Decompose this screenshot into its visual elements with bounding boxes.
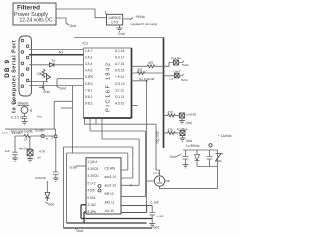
svg-text:470: 470	[168, 111, 174, 115]
svg-text:4 m: 4 m	[37, 115, 43, 119]
bottom right protection cluster	[170, 134, 232, 189]
svg-text:2 A.3: 2 A.3	[85, 55, 92, 59]
svg-text:1N4148: 1N4148	[35, 176, 46, 180]
svg-text:4 3VO3: 4 3VO3	[88, 167, 99, 171]
wire osc left branch	[147, 180, 155, 182]
svg-text:Lt.n: Lt.n	[3, 131, 8, 135]
wire PIC pin9 stub	[132, 105, 138, 107]
svg-text:1 QA #: 1 QA #	[88, 160, 98, 164]
wire bottom bold 2	[64, 227, 153, 229]
svg-text:CT-5: CT-5	[111, 21, 118, 25]
wire +5V rail	[74, 37, 164, 39]
wire arrow mark	[39, 86, 44, 88]
junction dot	[130, 185, 132, 187]
wire stub	[61, 107, 73, 109]
wire aux stub 2	[121, 205, 152, 207]
wire osc bottom to right rail	[160, 186, 218, 188]
svg-text:Rx: Rx	[59, 50, 64, 54]
LED DS2	[164, 70, 189, 83]
svg-text:regulated 5 volt supply: regulated 5 volt supply	[131, 22, 159, 26]
svg-text:A.0 17: A.0 17	[115, 55, 124, 59]
IC1 right pin labels	[115, 49, 125, 106]
ground DS5	[27, 156, 33, 162]
svg-text:8 3Pb: 8 3Pb	[88, 210, 97, 214]
LED DS5	[29, 136, 31, 150]
wire +5V bus vertical	[163, 38, 165, 149]
svg-text:Gnd: Gnd	[118, 32, 125, 36]
ground D5	[46, 202, 48, 204]
svg-text:5 1+2: 5 1+2	[88, 181, 96, 185]
ground regulator	[117, 25, 125, 36]
ground below C4	[22, 122, 28, 125]
wire osc right stub	[165, 180, 169, 182]
svg-text:Gnd: Gnd	[48, 203, 54, 207]
svg-text:Gnd: Gnd	[43, 90, 50, 94]
svg-text:1 A.7: 1 A.7	[85, 49, 92, 53]
wire aux stub	[121, 205, 147, 213]
svg-text:DB 9: DB 9	[4, 59, 11, 78]
wire Q1 to PIC	[57, 78, 84, 80]
label Shield	[13, 101, 29, 106]
IC2 right pin labels	[105, 167, 117, 214]
svg-text:3 3VOC: 3 3VOC	[88, 174, 100, 178]
svg-text:Gnd: Gnd	[186, 121, 192, 125]
svg-text:3.2 12: 3.2 12	[115, 88, 124, 92]
svg-text:L: L	[105, 10, 107, 14]
svg-text:Gnd: Gnd	[170, 155, 176, 159]
svg-text:Gnd: Gnd	[77, 229, 84, 233]
svg-text:Tx: Tx	[51, 59, 55, 63]
wire regulator output	[123, 18, 133, 20]
wire PIC B3 row loop	[90, 118, 146, 197]
svg-text:IC1: IC1	[83, 42, 89, 46]
ground C8	[53, 178, 59, 181]
wire PIC RA7 to LED1	[132, 65, 164, 67]
svg-text:470: 470	[148, 61, 154, 65]
resistor R5	[24, 135, 31, 138]
wire PIC Vdd stub down right	[132, 81, 147, 205]
svg-text:1u 35Vdc: 1u 35Vdc	[186, 144, 200, 148]
svg-text:12-24v: 12-24v	[12, 131, 22, 135]
capacitor C6	[183, 150, 189, 165]
svg-text:3A3 11: 3A3 11	[105, 201, 115, 205]
svg-text:1uF: 1uF	[5, 149, 10, 153]
svg-text:5 3P0: 5 3P0	[85, 75, 94, 79]
IC2 driver box	[70, 158, 122, 214]
wire pin3 with diode D2	[29, 64, 84, 66]
svg-text:Dm/BK: Dm/BK	[35, 129, 45, 133]
wire filter row	[15, 135, 56, 137]
svg-text:LM2940: LM2940	[108, 16, 120, 20]
connector J1 DB9 body	[19, 36, 32, 96]
wire rail	[183, 149, 218, 151]
wire outer loop	[64, 147, 133, 228]
capacitor C2 bottom	[149, 201, 164, 230]
zener D3	[195, 150, 200, 167]
svg-text:A.5 15: A.5 15	[115, 69, 124, 73]
svg-text:Filtered: Filtered	[17, 5, 40, 12]
svg-text:5Vdc: 5Vdc	[181, 78, 188, 82]
IC1 left pin labels	[85, 49, 94, 106]
wire vertical feed	[72, 86, 74, 154]
LED DS3 circuit	[164, 111, 197, 126]
svg-text:4 5/5: 4 5/5	[88, 189, 95, 193]
svg-text:+ um: + um	[157, 214, 164, 218]
connector J1 pins right column	[26, 45, 29, 82]
wire corner to power row	[54, 101, 72, 129]
svg-text:CD ATa: CD ATa	[105, 167, 116, 171]
svg-text:NR 12: NR 12	[105, 192, 114, 196]
LED DS4 circuit	[164, 127, 193, 143]
capacitor C4	[22, 113, 27, 121]
diode D2	[50, 63, 55, 67]
svg-text:A.7 16: A.7 16	[115, 62, 124, 66]
svg-text:470: 470	[168, 128, 174, 132]
diode D5	[46, 181, 48, 193]
svg-text:3 1A2: 3 1A2	[88, 203, 97, 207]
svg-text:12-24 volts DC: 12-24 volts DC	[19, 17, 52, 23]
svg-text:+ 12aVdc: + 12aVdc	[218, 134, 232, 138]
junction circle	[209, 144, 212, 147]
wire supply to regulator	[56, 9, 107, 18]
svg-text:4 A.5: 4 A.5	[85, 69, 92, 73]
wire U loop pin8	[84, 212, 86, 223]
svg-text:8 B.2: 8 B.2	[85, 95, 93, 99]
svg-text:aV: aV	[38, 156, 42, 160]
varistor Z1	[216, 154, 222, 162]
svg-text:1n4148: 1n4148	[186, 113, 196, 117]
wire power in	[5, 129, 56, 135]
IC1 PIC16F box	[83, 42, 132, 119]
svg-text:6 5Ta: 6 5Ta	[88, 196, 96, 200]
svg-text:6 B.0: 6 B.0	[85, 82, 93, 86]
svg-text:470: 470	[137, 68, 143, 72]
svg-text:+5Vdc: +5Vdc	[136, 15, 146, 19]
svg-text:9 B.3: 9 B.3	[85, 102, 93, 106]
svg-text:A.1 18: A.1 18	[115, 49, 124, 53]
left power input cluster	[3, 129, 58, 162]
svg-text:Shield: Shield	[18, 102, 29, 106]
svg-text:3 A.4: 3 A.4	[85, 62, 92, 66]
wire bottom bold	[67, 222, 147, 224]
resistor R3	[147, 65, 155, 68]
svg-text:7 B.1: 7 B.1	[85, 88, 93, 92]
buzzer SP1	[21, 107, 28, 114]
wire TxD bold	[29, 54, 84, 56]
transistor Q1	[47, 73, 51, 81]
resistor R4	[137, 72, 145, 75]
battery node	[54, 135, 57, 138]
svg-text:O.1 11: O.1 11	[115, 95, 125, 99]
svg-text:La: La	[170, 77, 174, 81]
svg-text:Gnd: Gnd	[186, 139, 192, 143]
svg-text:PIC16F 1842: PIC16F 1842	[106, 61, 112, 112]
svg-text:Jux 10: Jux 10	[105, 209, 115, 213]
wire inner loop	[67, 153, 128, 223]
IC2 left pin labels	[88, 160, 100, 214]
ground C5	[12, 158, 18, 161]
wire DB9 pin5 to PIC	[29, 85, 84, 87]
wire supply gnd stub	[56, 18, 69, 25]
power supply box PS1	[13, 3, 56, 25]
svg-text:aux3 14: aux3 14	[105, 175, 117, 179]
svg-text:aux2 13: aux2 13	[105, 184, 117, 188]
wire down from Q1	[57, 79, 59, 88]
svg-text:t.1 a: t.1 a	[154, 171, 160, 175]
svg-text:C 1 2 O: C 1 2 O	[11, 116, 23, 120]
svg-text:R.a Da: R.a Da	[172, 56, 182, 60]
svg-text:1m Blue: 1m Blue	[177, 127, 188, 131]
svg-text:Gnd: Gnd	[60, 87, 67, 91]
oscillator X1	[154, 171, 165, 186]
capacitor C7	[207, 150, 213, 167]
wire bottom bus	[197, 150, 218, 189]
LED DS1	[164, 56, 190, 67]
wire PIC bottom loop2	[102, 118, 139, 185]
diode D4 node	[41, 134, 44, 137]
svg-text:10k: 10k	[37, 72, 43, 76]
svg-text:O.3 13: O.3 13	[115, 82, 125, 86]
connector J1 pins left column	[21, 39, 24, 87]
svg-text:ra: ra	[46, 137, 49, 141]
svg-text:+ 5 14: + 5 14	[115, 75, 124, 79]
svg-text:Gnd: Gnd	[153, 226, 159, 230]
svg-text:C.1uF: C.1uF	[150, 201, 159, 205]
svg-text:A.5 10: A.5 10	[115, 102, 124, 106]
ground bottom left	[74, 228, 77, 230]
svg-text:DasT: DasT	[174, 70, 181, 74]
wire PIC bottom to osc	[85, 118, 160, 176]
regulator U2 LM2940	[105, 10, 123, 25]
svg-text:Gnd: Gnd	[70, 24, 77, 28]
wire RxD	[29, 49, 84, 51]
capacitor C8	[53, 172, 59, 178]
wire pin gnd branch	[29, 81, 48, 83]
wire gnd stub left	[44, 82, 46, 91]
resistor R2 vertical	[42, 69, 45, 78]
svg-text:1K: 1K	[24, 138, 28, 142]
ground C6	[183, 165, 189, 168]
svg-text:5Vdc: 5Vdc	[182, 63, 189, 67]
wire U loop pin7	[81, 205, 152, 219]
svg-text:4.7k: 4.7k	[39, 150, 45, 154]
wire PIC RA6 to LED2	[132, 72, 164, 74]
capacitor C5	[12, 136, 17, 158]
wire power junction down	[55, 138, 57, 172]
